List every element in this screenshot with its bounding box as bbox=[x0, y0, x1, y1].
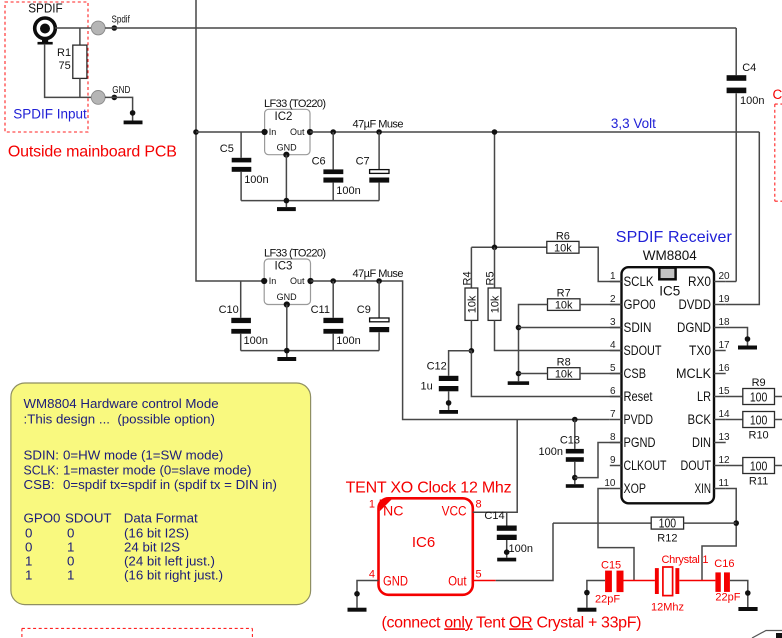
svg-text:1: 1 bbox=[369, 498, 375, 510]
pin 4 SDOUT bbox=[610, 350, 622, 352]
wire Reset net bbox=[471, 351, 621, 397]
wire Spdif signal to C4 column bbox=[105, 27, 736, 29]
svg-text:100: 100 bbox=[750, 414, 768, 428]
svg-text:WM8804: WM8804 bbox=[643, 248, 698, 263]
svg-text:SPDIF: SPDIF bbox=[28, 2, 63, 16]
pin 1 SCLK bbox=[610, 281, 622, 283]
dashed enclosure bottom (cut off) bbox=[22, 628, 253, 638]
notch mark IC5 bbox=[659, 268, 675, 280]
svg-text:1u: 1u bbox=[421, 380, 433, 392]
svg-text:10k: 10k bbox=[466, 295, 478, 313]
svg-text:DOUT: DOUT bbox=[681, 458, 712, 473]
wire 3.3V analog rail (IC3 out) bbox=[311, 281, 610, 420]
svg-text:R7: R7 bbox=[557, 288, 571, 300]
node 3.3V rail branch bbox=[492, 129, 498, 135]
svg-text:100n: 100n bbox=[244, 335, 268, 347]
svg-text:C: C bbox=[773, 87, 782, 102]
ground (R7/R8 net) bbox=[508, 381, 529, 385]
IC U5 WM8804 body bbox=[622, 267, 715, 503]
capacitor C4 bbox=[735, 28, 737, 75]
svg-text:4: 4 bbox=[610, 340, 616, 351]
ground (IC6) bbox=[348, 608, 367, 612]
resistor R7 bbox=[548, 299, 581, 311]
svg-text:6: 6 bbox=[610, 386, 616, 397]
svg-text:GND: GND bbox=[277, 292, 298, 302]
svg-text:1: 1 bbox=[67, 540, 74, 555]
svg-text:SDOUT: SDOUT bbox=[65, 511, 112, 526]
wire C15 to crystal bbox=[624, 580, 655, 582]
resistor R9 bbox=[726, 396, 743, 398]
svg-text:LF33 (TO220): LF33 (TO220) bbox=[264, 98, 326, 110]
capacitor C9 electrolytic bbox=[378, 281, 380, 318]
svg-text:8: 8 bbox=[610, 432, 616, 443]
svg-text:BCK: BCK bbox=[688, 412, 712, 427]
dashed enclosure right edge bbox=[775, 104, 782, 201]
wire GND pad to ground bbox=[105, 97, 133, 120]
svg-text:MCLK: MCLK bbox=[676, 366, 711, 381]
ground (C13) bbox=[566, 484, 584, 488]
svg-text:GPO0: GPO0 bbox=[24, 511, 61, 526]
pin 19 DVDD bbox=[714, 304, 726, 306]
node C13 top on PVDD rail bbox=[572, 417, 578, 423]
svg-text:19: 19 bbox=[719, 294, 731, 305]
svg-text:10k: 10k bbox=[554, 242, 572, 254]
wire R4 node to C12 bbox=[449, 351, 472, 376]
svg-text:0: 0 bbox=[67, 554, 74, 569]
node IC2 ground bbox=[284, 198, 290, 204]
svg-text:PVDD: PVDD bbox=[624, 412, 654, 427]
svg-text:GND: GND bbox=[112, 85, 130, 96]
svg-text:100: 100 bbox=[750, 391, 768, 405]
svg-text:100n: 100n bbox=[336, 335, 360, 347]
node C7 top bbox=[376, 129, 382, 135]
svg-text:TX0: TX0 bbox=[689, 343, 711, 358]
svg-text:R10: R10 bbox=[749, 429, 769, 441]
node SDIN tie bbox=[516, 325, 522, 331]
svg-text:SDOUT: SDOUT bbox=[624, 343, 662, 358]
resistor R5 bbox=[494, 247, 496, 288]
node C6 top bbox=[330, 129, 336, 135]
wire R7 left down to ground bbox=[519, 305, 548, 382]
ground (C14) bbox=[497, 558, 516, 562]
wire IC2 GND pin down bbox=[285, 155, 287, 207]
svg-text:GND: GND bbox=[277, 143, 298, 153]
node C15 ground bbox=[584, 590, 590, 596]
regulator IC2 LF33 bbox=[262, 98, 327, 158]
svg-text:R5: R5 bbox=[484, 271, 496, 285]
wire SDIN bbox=[519, 327, 622, 329]
svg-text:1: 1 bbox=[25, 568, 32, 583]
wire IC6 Out to R12 bbox=[496, 523, 553, 580]
node C16 ground bbox=[745, 590, 751, 596]
svg-text:IC6: IC6 bbox=[412, 534, 435, 551]
svg-text:11: 11 bbox=[719, 478, 730, 489]
corner decoration bottom right bbox=[752, 631, 782, 638]
svg-text:Out: Out bbox=[290, 127, 305, 137]
pin 17 TX0 bbox=[714, 350, 726, 352]
capacitor C6 bbox=[332, 132, 334, 169]
wire IC3 ground rail bbox=[241, 350, 379, 352]
ground (IC3) bbox=[277, 357, 296, 361]
svg-text:C14: C14 bbox=[484, 510, 504, 522]
resistor R6 bbox=[547, 241, 579, 253]
svg-text:C7: C7 bbox=[356, 156, 370, 168]
svg-text:PGND: PGND bbox=[624, 435, 656, 450]
node pull-up rail bbox=[492, 245, 498, 251]
wire C15 left to ground bbox=[587, 581, 605, 608]
node C14 ground bbox=[504, 549, 510, 555]
svg-text:In: In bbox=[269, 127, 277, 137]
node C13 ground bbox=[572, 475, 578, 481]
svg-text:C16: C16 bbox=[714, 558, 734, 570]
svg-text:4: 4 bbox=[369, 568, 375, 580]
ground (IC2) bbox=[277, 207, 296, 211]
svg-text:3: 3 bbox=[610, 317, 616, 328]
wire supply to IC2 In bbox=[196, 131, 265, 133]
svg-text:5: 5 bbox=[610, 363, 616, 374]
svg-text:NC: NC bbox=[383, 503, 404, 518]
wire 3.3V rail down to DVDD bbox=[726, 132, 760, 305]
svg-text:C6: C6 bbox=[312, 156, 326, 168]
wire: main supply vertical from top edge to IC3 input bbox=[196, 0, 264, 281]
svg-text:(connect only Tent OR Crystal: (connect only Tent OR Crystal + 33pF) bbox=[382, 614, 642, 631]
pin 12 DOUT bbox=[714, 465, 726, 467]
svg-text:GPO0: GPO0 bbox=[624, 297, 656, 312]
svg-text:1: 1 bbox=[610, 271, 616, 282]
svg-text:3,3 Volt: 3,3 Volt bbox=[611, 116, 656, 131]
wire 3.3V digital rail (IC2 out) bbox=[310, 131, 759, 133]
svg-text:20: 20 bbox=[719, 271, 731, 282]
svg-text:0=spdif tx=spdif in (spdif tx: 0=spdif tx=spdif in (spdif tx = DIN in) bbox=[63, 477, 277, 492]
wire R8 left bbox=[519, 373, 548, 375]
svg-text:10: 10 bbox=[604, 478, 616, 489]
svg-text:17: 17 bbox=[719, 340, 731, 351]
wire VCC feed from 3.3V analog bbox=[473, 420, 517, 513]
svg-text:Outside mainboard PCB: Outside mainboard PCB bbox=[8, 143, 177, 160]
ground (SPDIF input) bbox=[124, 121, 143, 125]
svg-text:0: 0 bbox=[25, 540, 32, 555]
capacitor C16 bbox=[715, 572, 720, 592]
ground (C12) bbox=[439, 410, 458, 414]
capacitor C7 electrolytic bbox=[378, 132, 380, 169]
ground (DGND) bbox=[738, 346, 757, 350]
wire pull-up top rail bbox=[471, 246, 546, 248]
svg-text:Chrystal 1: Chrystal 1 bbox=[662, 554, 709, 566]
svg-text:8: 8 bbox=[476, 498, 482, 510]
pin 1 marker triangle IC6 bbox=[380, 500, 392, 512]
crystal X1 bbox=[655, 568, 659, 594]
svg-text:1=master mode (0=slave mode): 1=master mode (0=slave mode) bbox=[63, 463, 251, 478]
svg-text:C12: C12 bbox=[427, 361, 447, 373]
pin 9 CLKOUT bbox=[610, 465, 622, 467]
svg-text:0=HW mode (1=SW mode): 0=HW mode (1=SW mode) bbox=[63, 448, 223, 463]
pin 20 RX0 bbox=[714, 281, 726, 283]
node IC6 ground bbox=[354, 591, 360, 597]
wire R8 right to CSB bbox=[580, 373, 622, 375]
svg-text:Data Format: Data Format bbox=[124, 511, 198, 526]
svg-text:C9: C9 bbox=[357, 304, 371, 316]
pin 5 CSB bbox=[610, 373, 622, 375]
svg-text:IC5: IC5 bbox=[659, 284, 680, 299]
wire R1 tap bbox=[79, 28, 81, 45]
svg-text:10k: 10k bbox=[555, 300, 573, 312]
resistor R11 bbox=[726, 465, 743, 467]
svg-text:0: 0 bbox=[67, 526, 74, 541]
wire IC2 ground rail bbox=[241, 200, 379, 202]
capacitor C13 bbox=[574, 420, 576, 449]
pin 16 MCLK bbox=[714, 373, 726, 375]
svg-text:CLKOUT: CLKOUT bbox=[624, 458, 667, 473]
node XIN/R12 bbox=[733, 520, 739, 526]
svg-text:TENT XO Clock 12 Mhz: TENT XO Clock 12 Mhz bbox=[346, 480, 512, 497]
wire XOP net bbox=[598, 489, 634, 581]
svg-text:DIN: DIN bbox=[692, 435, 711, 450]
svg-text:15: 15 bbox=[719, 386, 731, 397]
capacitor C11 bbox=[332, 281, 334, 318]
wire IC3 GND pin down bbox=[286, 305, 288, 358]
pin 15 LR bbox=[714, 396, 726, 398]
svg-text:1: 1 bbox=[25, 554, 32, 569]
node R8 tie bbox=[516, 371, 522, 377]
pin 7 PVDD bbox=[610, 419, 622, 421]
svg-text:47µF Muse: 47µF Muse bbox=[353, 268, 404, 280]
wire C16 right to ground bbox=[730, 581, 748, 608]
pad Spdif bbox=[91, 21, 105, 35]
pin 3 SDIN bbox=[610, 327, 622, 329]
svg-text:100: 100 bbox=[750, 460, 768, 474]
SPDIF input dashed enclosure bbox=[5, 2, 88, 132]
svg-text:Out: Out bbox=[448, 574, 467, 589]
wire RCA pin to Spdif pad bbox=[55, 27, 98, 29]
svg-text:CSB: CSB bbox=[624, 366, 647, 381]
pad GND bbox=[91, 91, 105, 105]
node R4 bottom bbox=[469, 348, 475, 354]
svg-text:100n: 100n bbox=[539, 446, 563, 458]
pin 11 XIN bbox=[714, 488, 726, 490]
regulator IC3 LF33 bbox=[261, 247, 326, 307]
svg-text:R6: R6 bbox=[556, 230, 570, 242]
wire R7 right to GPO0 bbox=[580, 304, 622, 306]
svg-text:R12: R12 bbox=[657, 533, 677, 545]
svg-text:22pF: 22pF bbox=[715, 592, 740, 604]
capacitor C10 bbox=[240, 281, 242, 318]
svg-text:12Mhz: 12Mhz bbox=[651, 602, 684, 614]
ground (C15) bbox=[577, 608, 596, 612]
svg-text:R11: R11 bbox=[749, 475, 768, 487]
svg-text:VCC: VCC bbox=[442, 503, 467, 518]
svg-text:22pF: 22pF bbox=[595, 594, 620, 606]
wire R1 bottom bbox=[79, 78, 81, 97]
svg-text:18: 18 bbox=[719, 317, 731, 328]
capacitor C14 bbox=[506, 512, 508, 525]
svg-text:75: 75 bbox=[59, 60, 71, 72]
svg-text:IC3: IC3 bbox=[275, 260, 293, 272]
svg-text:R8: R8 bbox=[557, 357, 571, 369]
svg-text:9: 9 bbox=[610, 455, 616, 466]
svg-text:100n: 100n bbox=[740, 95, 764, 107]
wire RX0 to C4 bbox=[726, 281, 737, 283]
svg-text:R9: R9 bbox=[752, 377, 766, 389]
wire C13 to PGND bbox=[575, 443, 622, 478]
note box WM8804 hardware control mode bbox=[11, 383, 311, 605]
svg-text:C4: C4 bbox=[742, 62, 756, 74]
pin 2 GPO0 bbox=[610, 304, 622, 306]
wire IC6 GND to ground bbox=[357, 581, 379, 608]
svg-text:In: In bbox=[269, 276, 277, 286]
svg-text:C13: C13 bbox=[560, 435, 580, 447]
svg-text:C15: C15 bbox=[601, 560, 621, 572]
svg-text:10k: 10k bbox=[555, 369, 573, 381]
node C9 top bbox=[376, 278, 382, 284]
node IC3 ground bbox=[284, 348, 290, 354]
wire R6 to SCLK bbox=[579, 247, 622, 281]
node DGND ground bbox=[745, 336, 751, 342]
svg-text:SDIN:: SDIN: bbox=[24, 448, 59, 463]
svg-text:(16 bit I2S): (16 bit I2S) bbox=[124, 526, 189, 541]
svg-text:Out: Out bbox=[290, 276, 305, 286]
svg-text:SCLK:: SCLK: bbox=[24, 463, 60, 478]
svg-text:(16 bit right just.): (16 bit right just.) bbox=[124, 568, 223, 583]
wire XIN net bbox=[702, 489, 736, 581]
svg-text:Spdif: Spdif bbox=[112, 15, 130, 26]
svg-text:100n: 100n bbox=[336, 185, 360, 197]
node: junction supply to IC2 input bbox=[193, 129, 199, 135]
IC6 TENT XO body bbox=[379, 498, 473, 595]
resistor R4 bbox=[470, 247, 472, 288]
svg-text:5: 5 bbox=[476, 568, 482, 580]
node above ground bbox=[130, 110, 136, 116]
svg-text:24 bit I2S: 24 bit I2S bbox=[124, 540, 180, 555]
svg-text::This design ... (possible op: :This design ... (possible option) bbox=[24, 412, 215, 427]
svg-text:SCLK: SCLK bbox=[624, 274, 654, 289]
svg-text:GND: GND bbox=[383, 574, 408, 589]
svg-text:XIN: XIN bbox=[695, 481, 712, 496]
wire R5 to SDOUT bbox=[495, 320, 622, 350]
svg-text:(24 bit left just.): (24 bit left just.) bbox=[124, 554, 215, 569]
svg-text:WM8804 Hardware control Mode: WM8804 Hardware control Mode bbox=[24, 396, 219, 411]
svg-text:IC2: IC2 bbox=[275, 111, 293, 123]
node on GND pad wire bbox=[112, 95, 118, 101]
pin 14 BCK bbox=[714, 419, 726, 421]
wire crystal to C16 bbox=[679, 580, 715, 582]
svg-text:SDIN: SDIN bbox=[624, 320, 652, 335]
svg-text:CSB:: CSB: bbox=[24, 477, 55, 492]
wire 3.3V branch to pull-ups bbox=[494, 132, 496, 247]
resistor R1 bbox=[73, 45, 87, 78]
svg-text:1: 1 bbox=[67, 568, 74, 583]
svg-text:14: 14 bbox=[719, 409, 731, 420]
svg-text:C11: C11 bbox=[311, 304, 330, 316]
svg-text:DVDD: DVDD bbox=[679, 297, 712, 312]
svg-text:100n: 100n bbox=[509, 543, 533, 555]
resistor R8 bbox=[548, 368, 581, 380]
svg-text:47µF Muse: 47µF Muse bbox=[353, 119, 404, 131]
svg-text:LF33 (TO220): LF33 (TO220) bbox=[264, 247, 326, 259]
svg-text:100: 100 bbox=[659, 517, 677, 531]
pin 8 PGND bbox=[610, 442, 622, 444]
node on Spdif wire bbox=[112, 25, 118, 31]
svg-text:C5: C5 bbox=[220, 143, 234, 155]
pin 6 Reset bbox=[610, 396, 622, 398]
resistor R10 bbox=[726, 419, 743, 421]
svg-text:10k: 10k bbox=[489, 295, 501, 313]
wire DGND to ground bbox=[726, 328, 748, 346]
connector J1 RCA SPDIF bbox=[35, 18, 56, 45]
svg-text:LR: LR bbox=[697, 389, 711, 404]
svg-text:Reset: Reset bbox=[624, 389, 653, 404]
svg-text:SPDIF Receiver: SPDIF Receiver bbox=[616, 229, 733, 246]
svg-text:100n: 100n bbox=[244, 174, 268, 186]
svg-text:XOP: XOP bbox=[624, 481, 647, 496]
wire IC6 Out red stub bbox=[473, 580, 496, 582]
svg-text:7: 7 bbox=[610, 409, 616, 420]
svg-text:2: 2 bbox=[610, 294, 616, 305]
svg-text:12: 12 bbox=[719, 455, 731, 466]
resistor R12 bbox=[553, 522, 651, 524]
capacitor C15 bbox=[605, 571, 612, 593]
svg-text:R1: R1 bbox=[57, 47, 71, 59]
svg-text:R4: R4 bbox=[461, 271, 473, 285]
pin 10 XOP bbox=[610, 488, 622, 490]
svg-text:SPDIF Input: SPDIF Input bbox=[13, 107, 87, 122]
wire RCA shell down bbox=[45, 44, 99, 98]
node C12 ground bbox=[446, 400, 452, 406]
svg-text:16: 16 bbox=[719, 363, 731, 374]
svg-text:0: 0 bbox=[25, 526, 32, 541]
svg-text:13: 13 bbox=[719, 432, 731, 443]
svg-text:RX0: RX0 bbox=[688, 274, 711, 289]
node C11 top bbox=[330, 278, 336, 284]
pin 18 DGND bbox=[714, 327, 726, 329]
capacitor C5 bbox=[240, 132, 242, 158]
svg-text:C10: C10 bbox=[219, 304, 239, 316]
pin 13 DIN bbox=[714, 442, 726, 444]
ground (C16) bbox=[738, 607, 757, 611]
svg-text:DGND: DGND bbox=[677, 320, 711, 335]
capacitor C12 bbox=[439, 376, 459, 381]
